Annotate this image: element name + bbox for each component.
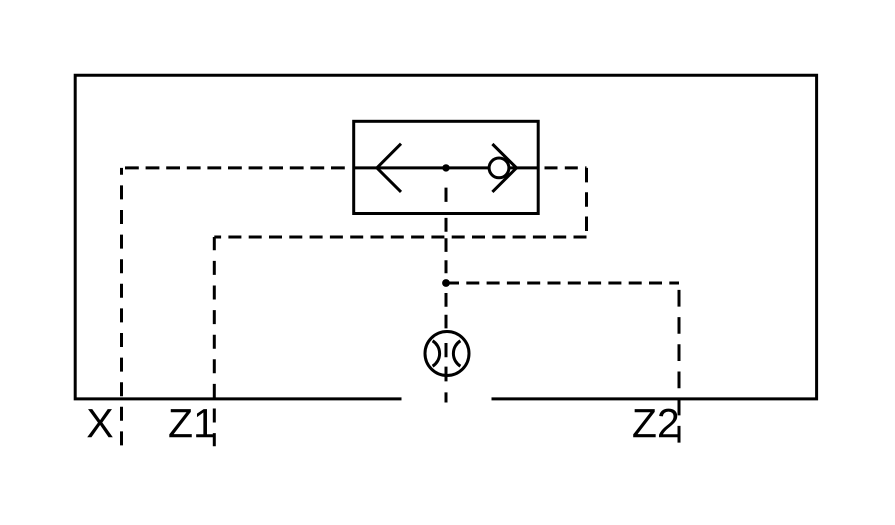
check valve seat — [492, 144, 516, 192]
manifold block outline — [75, 75, 816, 399]
wire Z1 port vertical — [213, 237, 216, 446]
wire Z2 horizontal run — [446, 282, 679, 285]
port label Z1 — [169, 409, 214, 437]
wire X pilot line horizontal — [122, 166, 352, 169]
orifice O1 left arc — [433, 341, 440, 366]
shuttle valve flow line — [354, 166, 539, 169]
wire Z1 horizontal run — [214, 236, 586, 239]
wire Z1 stub from valve — [538, 166, 586, 169]
wire Z1 drop vertical — [585, 168, 588, 237]
wire pilot supply center line lower — [445, 283, 448, 403]
port label Z2 — [633, 409, 677, 438]
wire X pilot line vertical — [120, 168, 123, 446]
node valve center junction — [442, 164, 449, 171]
orifice O1 circle — [425, 332, 469, 376]
wire Z2 port vertical — [678, 283, 681, 445]
orifice O1 right arc — [453, 341, 460, 366]
port label X — [87, 409, 113, 437]
shuttle valve body U1 — [354, 121, 539, 213]
check valve ball — [489, 158, 509, 178]
wire pilot supply center line upper — [445, 171, 448, 275]
node Z2 branch junction — [442, 279, 450, 287]
left arrowhead — [377, 144, 401, 192]
